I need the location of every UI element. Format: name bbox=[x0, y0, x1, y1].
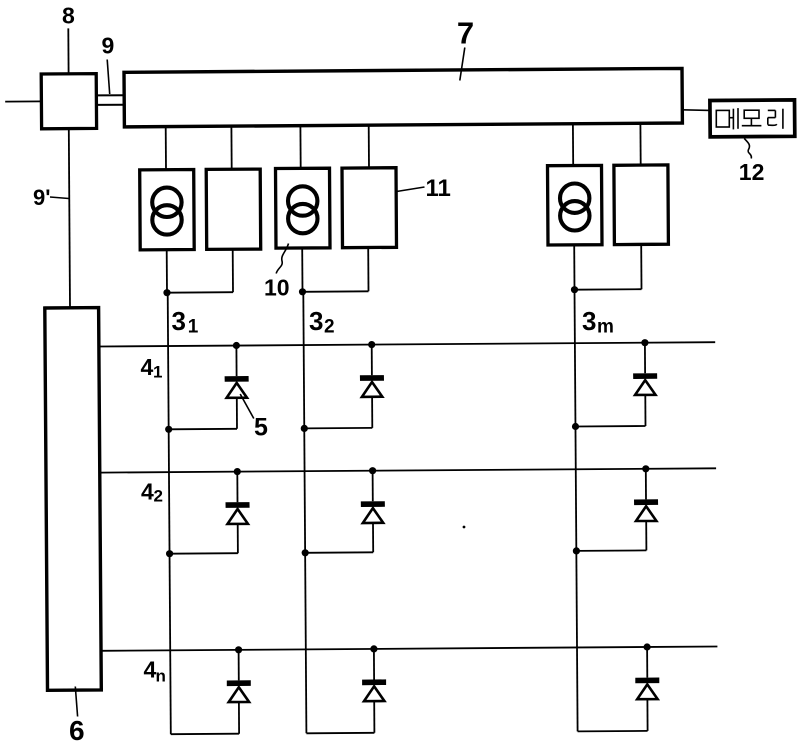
bus box 7 bbox=[124, 68, 682, 127]
wire: 2nd converter down lead bbox=[367, 248, 369, 292]
svg-text:6: 6 bbox=[69, 715, 85, 745]
leader squiggle for label 12 bbox=[744, 139, 751, 159]
leader line for label 7 bbox=[460, 48, 465, 81]
wire: bus to memory box bbox=[682, 109, 711, 112]
svg-text:2: 2 bbox=[154, 487, 163, 506]
wire: 2nd current source to column node bbox=[301, 248, 303, 292]
label 4_n bbox=[144, 657, 166, 686]
converter box (m-th, ref 11) bbox=[614, 165, 669, 245]
wire: diode D11 bottom connector to column bbox=[169, 428, 237, 431]
wire 9': box 8 down to driver box 6 bbox=[69, 129, 70, 308]
LED diode Dn1 (cathode bar + triangle) bbox=[227, 650, 251, 734]
svg-text:5: 5 bbox=[254, 414, 268, 442]
LED diode D1m (cathode bar + triangle) bbox=[633, 343, 657, 426]
junction node at top of column 3 bbox=[571, 286, 578, 293]
current source box (2nd, ref 10) bbox=[276, 168, 331, 248]
stray scan speck bbox=[463, 526, 466, 529]
LED diode Dnm (cathode bar + triangle) bbox=[635, 647, 659, 731]
wire: diode Dn2 bottom connector to column bbox=[306, 732, 374, 735]
svg-text:m: m bbox=[597, 317, 614, 338]
svg-text:4: 4 bbox=[141, 354, 154, 380]
junction dot: connector D2m on column bbox=[573, 547, 580, 554]
label 10 bbox=[264, 275, 290, 301]
wire: diode D12 bottom connector to column bbox=[304, 427, 372, 430]
text MEMORI (Hangul) inside memory box bbox=[716, 108, 783, 129]
wire: bus drop to 2nd current source bbox=[299, 126, 301, 169]
wire: 1st converter down lead bbox=[232, 249, 234, 292]
control box 8 bbox=[41, 74, 96, 129]
current source box (1st, ref 10) bbox=[140, 170, 195, 250]
svg-text:n: n bbox=[156, 667, 166, 686]
LED diode D2m (cathode bar + triangle) bbox=[634, 469, 658, 551]
wire: diode D22 bottom connector to column bbox=[305, 551, 373, 554]
LED diode D21 (cathode bar + triangle) bbox=[226, 472, 250, 554]
junction dot: diode D12 tap on row bbox=[368, 341, 375, 348]
label 11 bbox=[426, 175, 451, 202]
converter box (1st, ref 11) bbox=[206, 169, 261, 249]
LED diode D22 (cathode bar + triangle) bbox=[361, 471, 385, 553]
label 7 bbox=[457, 16, 474, 51]
leader line for label 5 bbox=[240, 394, 254, 419]
wire: bus drop to 1st current source bbox=[165, 127, 167, 170]
svg-text:4: 4 bbox=[141, 479, 154, 505]
row line 4_1 bbox=[99, 342, 715, 346]
svg-text:7: 7 bbox=[457, 16, 474, 51]
memory box 12 bbox=[710, 100, 795, 137]
wire: 2nd group bottom tie bbox=[303, 290, 369, 293]
wire: bus drop to 2nd converter bbox=[368, 125, 370, 168]
junction dot: diode D1m tap on row bbox=[641, 339, 648, 346]
wire: diode D2m bottom connector to column bbox=[576, 549, 646, 552]
wire: bus drop to 1st converter bbox=[230, 126, 232, 169]
svg-text:12: 12 bbox=[739, 159, 765, 185]
junction dot: diode D22 tap on row bbox=[369, 467, 376, 474]
column line 3_1 bbox=[168, 292, 171, 734]
label 8 bbox=[62, 3, 75, 29]
wire: double line 9 (lower) bbox=[96, 104, 124, 106]
label 3_m bbox=[582, 306, 614, 338]
svg-text:1: 1 bbox=[188, 317, 199, 338]
wire: m-th group bottom tie bbox=[575, 288, 642, 291]
svg-text:2: 2 bbox=[324, 317, 335, 338]
junction dot: diode D2m tap on row bbox=[642, 465, 649, 472]
label 9' bbox=[33, 185, 50, 210]
svg-text:9': 9' bbox=[33, 185, 50, 210]
LED diode D11 (cathode bar + triangle) bbox=[225, 346, 249, 429]
row driver box 6 bbox=[45, 308, 102, 691]
label 4_2 bbox=[141, 479, 163, 506]
column line 3_2 bbox=[303, 291, 306, 733]
wire: double line 9 (upper) bbox=[96, 94, 124, 96]
leader line for label 9 bbox=[107, 60, 110, 95]
leader line for label 6 bbox=[75, 687, 77, 717]
label 6 bbox=[69, 715, 85, 746]
wire: 1st group bottom tie bbox=[167, 291, 233, 294]
wire: m-th current source to column node bbox=[573, 245, 575, 290]
junction dot: diode Dnm tap on row bbox=[644, 643, 651, 650]
LED diode Dn2 (cathode bar + triangle) bbox=[362, 649, 386, 733]
leader line for label 9' bbox=[50, 197, 69, 199]
svg-text:8: 8 bbox=[62, 3, 75, 29]
junction dot: connector D21 on column bbox=[166, 550, 173, 557]
wire: bus drop to m-th converter bbox=[639, 123, 641, 165]
svg-text:1: 1 bbox=[153, 363, 162, 382]
wire: m-th converter down lead bbox=[640, 244, 642, 289]
column line 3_m bbox=[575, 289, 578, 731]
row line 4_n bbox=[102, 647, 718, 651]
wire: diode Dn1 bottom connector to column bbox=[171, 733, 239, 736]
junction dot: connector D1m on column bbox=[572, 423, 579, 430]
label 3_1 bbox=[172, 306, 199, 338]
junction dot: connector D11 on column bbox=[165, 426, 172, 433]
wire: left input lead into box 8 bbox=[5, 100, 41, 102]
label 9 bbox=[102, 33, 115, 59]
current source box (m-th, ref 10) bbox=[548, 165, 603, 245]
junction node at top of column 2 bbox=[299, 288, 306, 295]
junction dot: diode Dn2 tap on row bbox=[370, 645, 377, 652]
svg-text:3: 3 bbox=[582, 306, 596, 336]
label 4_1 bbox=[141, 354, 163, 382]
wire: top lead into box 8 bbox=[67, 28, 69, 73]
leader squiggle for label 10 bbox=[276, 244, 288, 274]
svg-text:11: 11 bbox=[426, 175, 451, 202]
leader line for label 11 bbox=[397, 187, 425, 192]
svg-text:10: 10 bbox=[264, 275, 290, 301]
junction dot: connector D22 on column bbox=[302, 549, 309, 556]
junction dot: diode D11 tap on row bbox=[233, 342, 240, 349]
junction dot: diode Dn1 tap on row bbox=[235, 646, 242, 653]
wire: diode D1m bottom connector to column bbox=[576, 425, 646, 428]
converter box (2nd, ref 11) bbox=[342, 168, 397, 248]
junction dot: diode D21 tap on row bbox=[234, 468, 241, 475]
LED diode D12 (cathode bar + triangle) bbox=[360, 345, 384, 428]
label 5 bbox=[254, 414, 268, 442]
junction node at top of column 1 bbox=[163, 289, 170, 296]
wire: bus drop to m-th current source bbox=[572, 124, 574, 166]
junction dot: connector D12 on column bbox=[301, 425, 308, 432]
svg-text:3: 3 bbox=[309, 306, 323, 336]
row line 4_2 bbox=[100, 468, 716, 472]
label 12 bbox=[739, 159, 765, 185]
wire: 1st current source to column node bbox=[166, 250, 168, 293]
svg-text:3: 3 bbox=[172, 306, 186, 336]
label 3_2 bbox=[309, 306, 335, 338]
wire: diode D21 bottom connector to column bbox=[170, 552, 238, 555]
svg-text:9: 9 bbox=[102, 33, 115, 59]
wire: diode Dnm bottom connector to column bbox=[578, 730, 648, 733]
